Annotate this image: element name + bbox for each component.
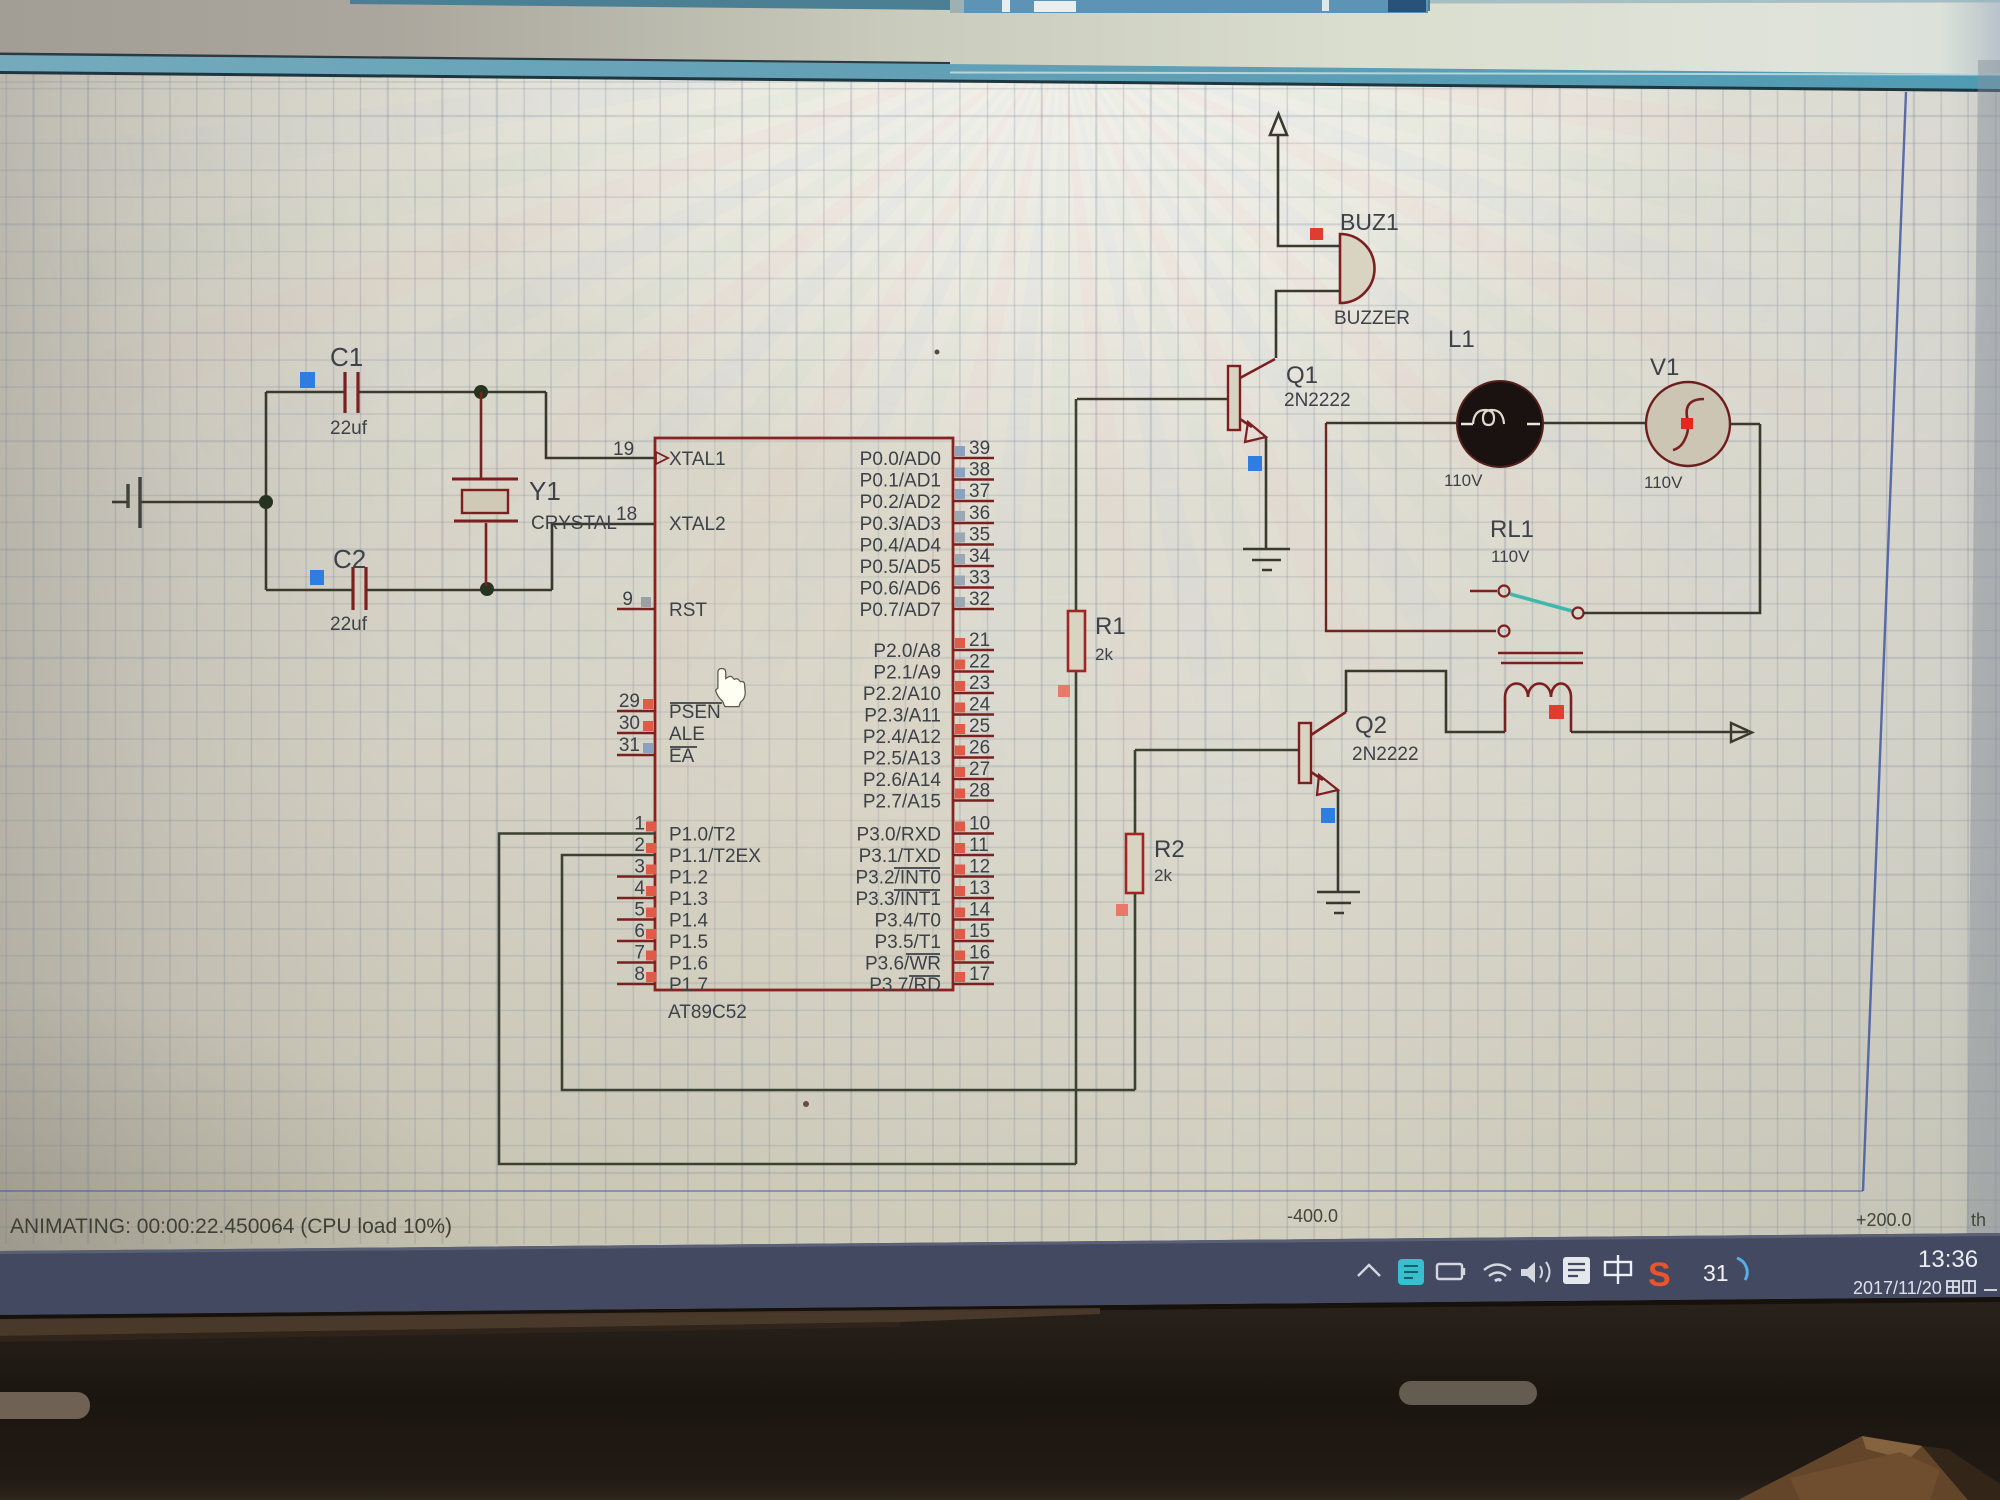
svg-text:4: 4 [634, 878, 645, 899]
svg-text:AT89C52: AT89C52 [668, 1002, 747, 1023]
svg-text:Q1: Q1 [1286, 362, 1318, 389]
svg-text:P0.5/AD5: P0.5/AD5 [860, 557, 941, 578]
svg-text:P2.0/A8: P2.0/A8 [873, 641, 941, 662]
svg-text:P2.2/A10: P2.2/A10 [863, 684, 941, 705]
svg-text:P2.7/A15: P2.7/A15 [863, 792, 941, 813]
svg-text:11: 11 [969, 835, 989, 856]
svg-text:2k: 2k [1154, 866, 1172, 885]
svg-text:P0.1/AD1: P0.1/AD1 [860, 471, 941, 492]
svg-text:37: 37 [969, 481, 990, 502]
svg-text:ALE: ALE [669, 724, 705, 745]
svg-text:XTAL1: XTAL1 [669, 449, 726, 470]
svg-text:P0.2/AD2: P0.2/AD2 [860, 492, 941, 513]
svg-text:5: 5 [634, 900, 645, 921]
svg-text:Q2: Q2 [1355, 712, 1387, 739]
svg-text:25: 25 [969, 716, 990, 737]
svg-text:3: 3 [634, 857, 645, 878]
svg-text:P3.2/INT0: P3.2/INT0 [855, 868, 941, 889]
svg-text:R2: R2 [1154, 836, 1185, 863]
svg-text:P1.4: P1.4 [669, 911, 709, 932]
svg-text:P0.3/AD3: P0.3/AD3 [860, 514, 941, 535]
svg-text:P3.7/RD: P3.7/RD [869, 975, 941, 996]
svg-text:EA: EA [669, 746, 695, 767]
svg-text:P1.1/T2EX: P1.1/T2EX [669, 846, 761, 867]
svg-text:PSEN: PSEN [669, 702, 721, 723]
svg-text:17: 17 [969, 964, 990, 985]
svg-text:12: 12 [969, 857, 990, 878]
svg-text:C1: C1 [330, 342, 363, 372]
svg-text:9: 9 [622, 589, 633, 610]
svg-text:31: 31 [619, 735, 640, 756]
svg-text:V1: V1 [1650, 354, 1679, 381]
svg-text:P1.0/T2: P1.0/T2 [669, 825, 736, 846]
svg-text:2k: 2k [1095, 645, 1113, 664]
svg-text:P2.1/A9: P2.1/A9 [873, 663, 941, 684]
svg-text:22: 22 [969, 652, 990, 673]
svg-text:22uf: 22uf [330, 614, 368, 635]
svg-text:P1.7: P1.7 [669, 975, 708, 996]
svg-text:R1: R1 [1095, 613, 1126, 640]
svg-text:33: 33 [969, 568, 990, 589]
svg-text:36: 36 [969, 503, 990, 524]
svg-text:P1.3: P1.3 [669, 889, 708, 910]
svg-text:RL1: RL1 [1490, 516, 1534, 543]
svg-text:S: S [1648, 1256, 1671, 1294]
svg-text:24: 24 [969, 695, 991, 716]
svg-text:16: 16 [969, 943, 990, 964]
svg-text:P0.7/AD7: P0.7/AD7 [860, 600, 941, 621]
svg-text:P1.2: P1.2 [669, 868, 708, 889]
svg-text:BUZZER: BUZZER [1334, 308, 1410, 329]
svg-text:Y1: Y1 [529, 476, 561, 506]
svg-text:P3.6/WR: P3.6/WR [865, 954, 941, 975]
svg-text:-400.0: -400.0 [1287, 1206, 1338, 1226]
svg-text:2: 2 [634, 835, 645, 856]
svg-text:P2.3/A11: P2.3/A11 [864, 706, 941, 727]
svg-text:21: 21 [969, 630, 990, 651]
svg-text:34: 34 [969, 546, 991, 567]
svg-text:22uf: 22uf [330, 418, 368, 439]
svg-text:10: 10 [969, 814, 990, 835]
svg-text:8: 8 [634, 964, 645, 985]
svg-text:P0.4/AD4: P0.4/AD4 [860, 536, 942, 557]
svg-text:7: 7 [634, 943, 645, 964]
svg-text:L1: L1 [1448, 326, 1475, 353]
svg-text:C2: C2 [333, 544, 366, 574]
svg-text:th: th [1971, 1210, 1986, 1230]
svg-text:P2.4/A12: P2.4/A12 [863, 727, 941, 748]
svg-text:110V: 110V [1491, 547, 1530, 566]
svg-text:P2.5/A13: P2.5/A13 [863, 749, 941, 770]
svg-text:P1.6: P1.6 [669, 954, 708, 975]
svg-text:P3.0/RXD: P3.0/RXD [857, 825, 941, 846]
svg-text:2017/11/20: 2017/11/20 [1853, 1278, 1942, 1298]
svg-text:P3.1/TXD: P3.1/TXD [859, 846, 941, 867]
svg-text:2N2222: 2N2222 [1284, 390, 1351, 411]
svg-text:110V: 110V [1444, 471, 1483, 490]
svg-text:6: 6 [634, 921, 645, 942]
svg-text:13:36: 13:36 [1918, 1246, 1978, 1273]
svg-text:29: 29 [619, 691, 640, 712]
svg-text:15: 15 [969, 921, 990, 942]
svg-text:P1.5: P1.5 [669, 932, 708, 953]
svg-text:ANIMATING: 00:00:22.450064 (CP: ANIMATING: 00:00:22.450064 (CPU load 10%… [10, 1215, 452, 1238]
svg-text:2N2222: 2N2222 [1352, 744, 1419, 765]
svg-text:P3.5/T1: P3.5/T1 [874, 932, 941, 953]
svg-text:13: 13 [969, 878, 990, 899]
svg-text:P2.6/A14: P2.6/A14 [863, 770, 942, 791]
svg-text:35: 35 [969, 525, 990, 546]
svg-text:P3.4/T0: P3.4/T0 [874, 911, 941, 932]
svg-text:32: 32 [969, 589, 990, 610]
svg-text:BUZ1: BUZ1 [1340, 209, 1399, 235]
svg-text:23: 23 [969, 673, 990, 694]
svg-text:XTAL2: XTAL2 [669, 514, 726, 535]
svg-text:14: 14 [969, 900, 991, 921]
svg-text:28: 28 [969, 781, 990, 802]
svg-text:27: 27 [969, 759, 990, 780]
svg-text:30: 30 [619, 713, 640, 734]
svg-text:110V: 110V [1644, 473, 1683, 492]
svg-text:P3.3/INT1: P3.3/INT1 [855, 889, 941, 910]
svg-text:RST: RST [669, 600, 707, 621]
svg-text:+200.0: +200.0 [1856, 1210, 1912, 1230]
svg-text:31: 31 [1703, 1260, 1729, 1286]
svg-text:P0.6/AD6: P0.6/AD6 [860, 579, 941, 600]
svg-text:P0.0/AD0: P0.0/AD0 [860, 449, 941, 470]
svg-text:26: 26 [969, 738, 990, 759]
svg-text:CRYSTAL: CRYSTAL [531, 513, 617, 534]
svg-text:38: 38 [969, 460, 990, 481]
svg-text:1: 1 [634, 814, 645, 835]
svg-text:18: 18 [616, 504, 637, 525]
svg-text:39: 39 [969, 438, 990, 459]
svg-text:19: 19 [613, 439, 634, 460]
